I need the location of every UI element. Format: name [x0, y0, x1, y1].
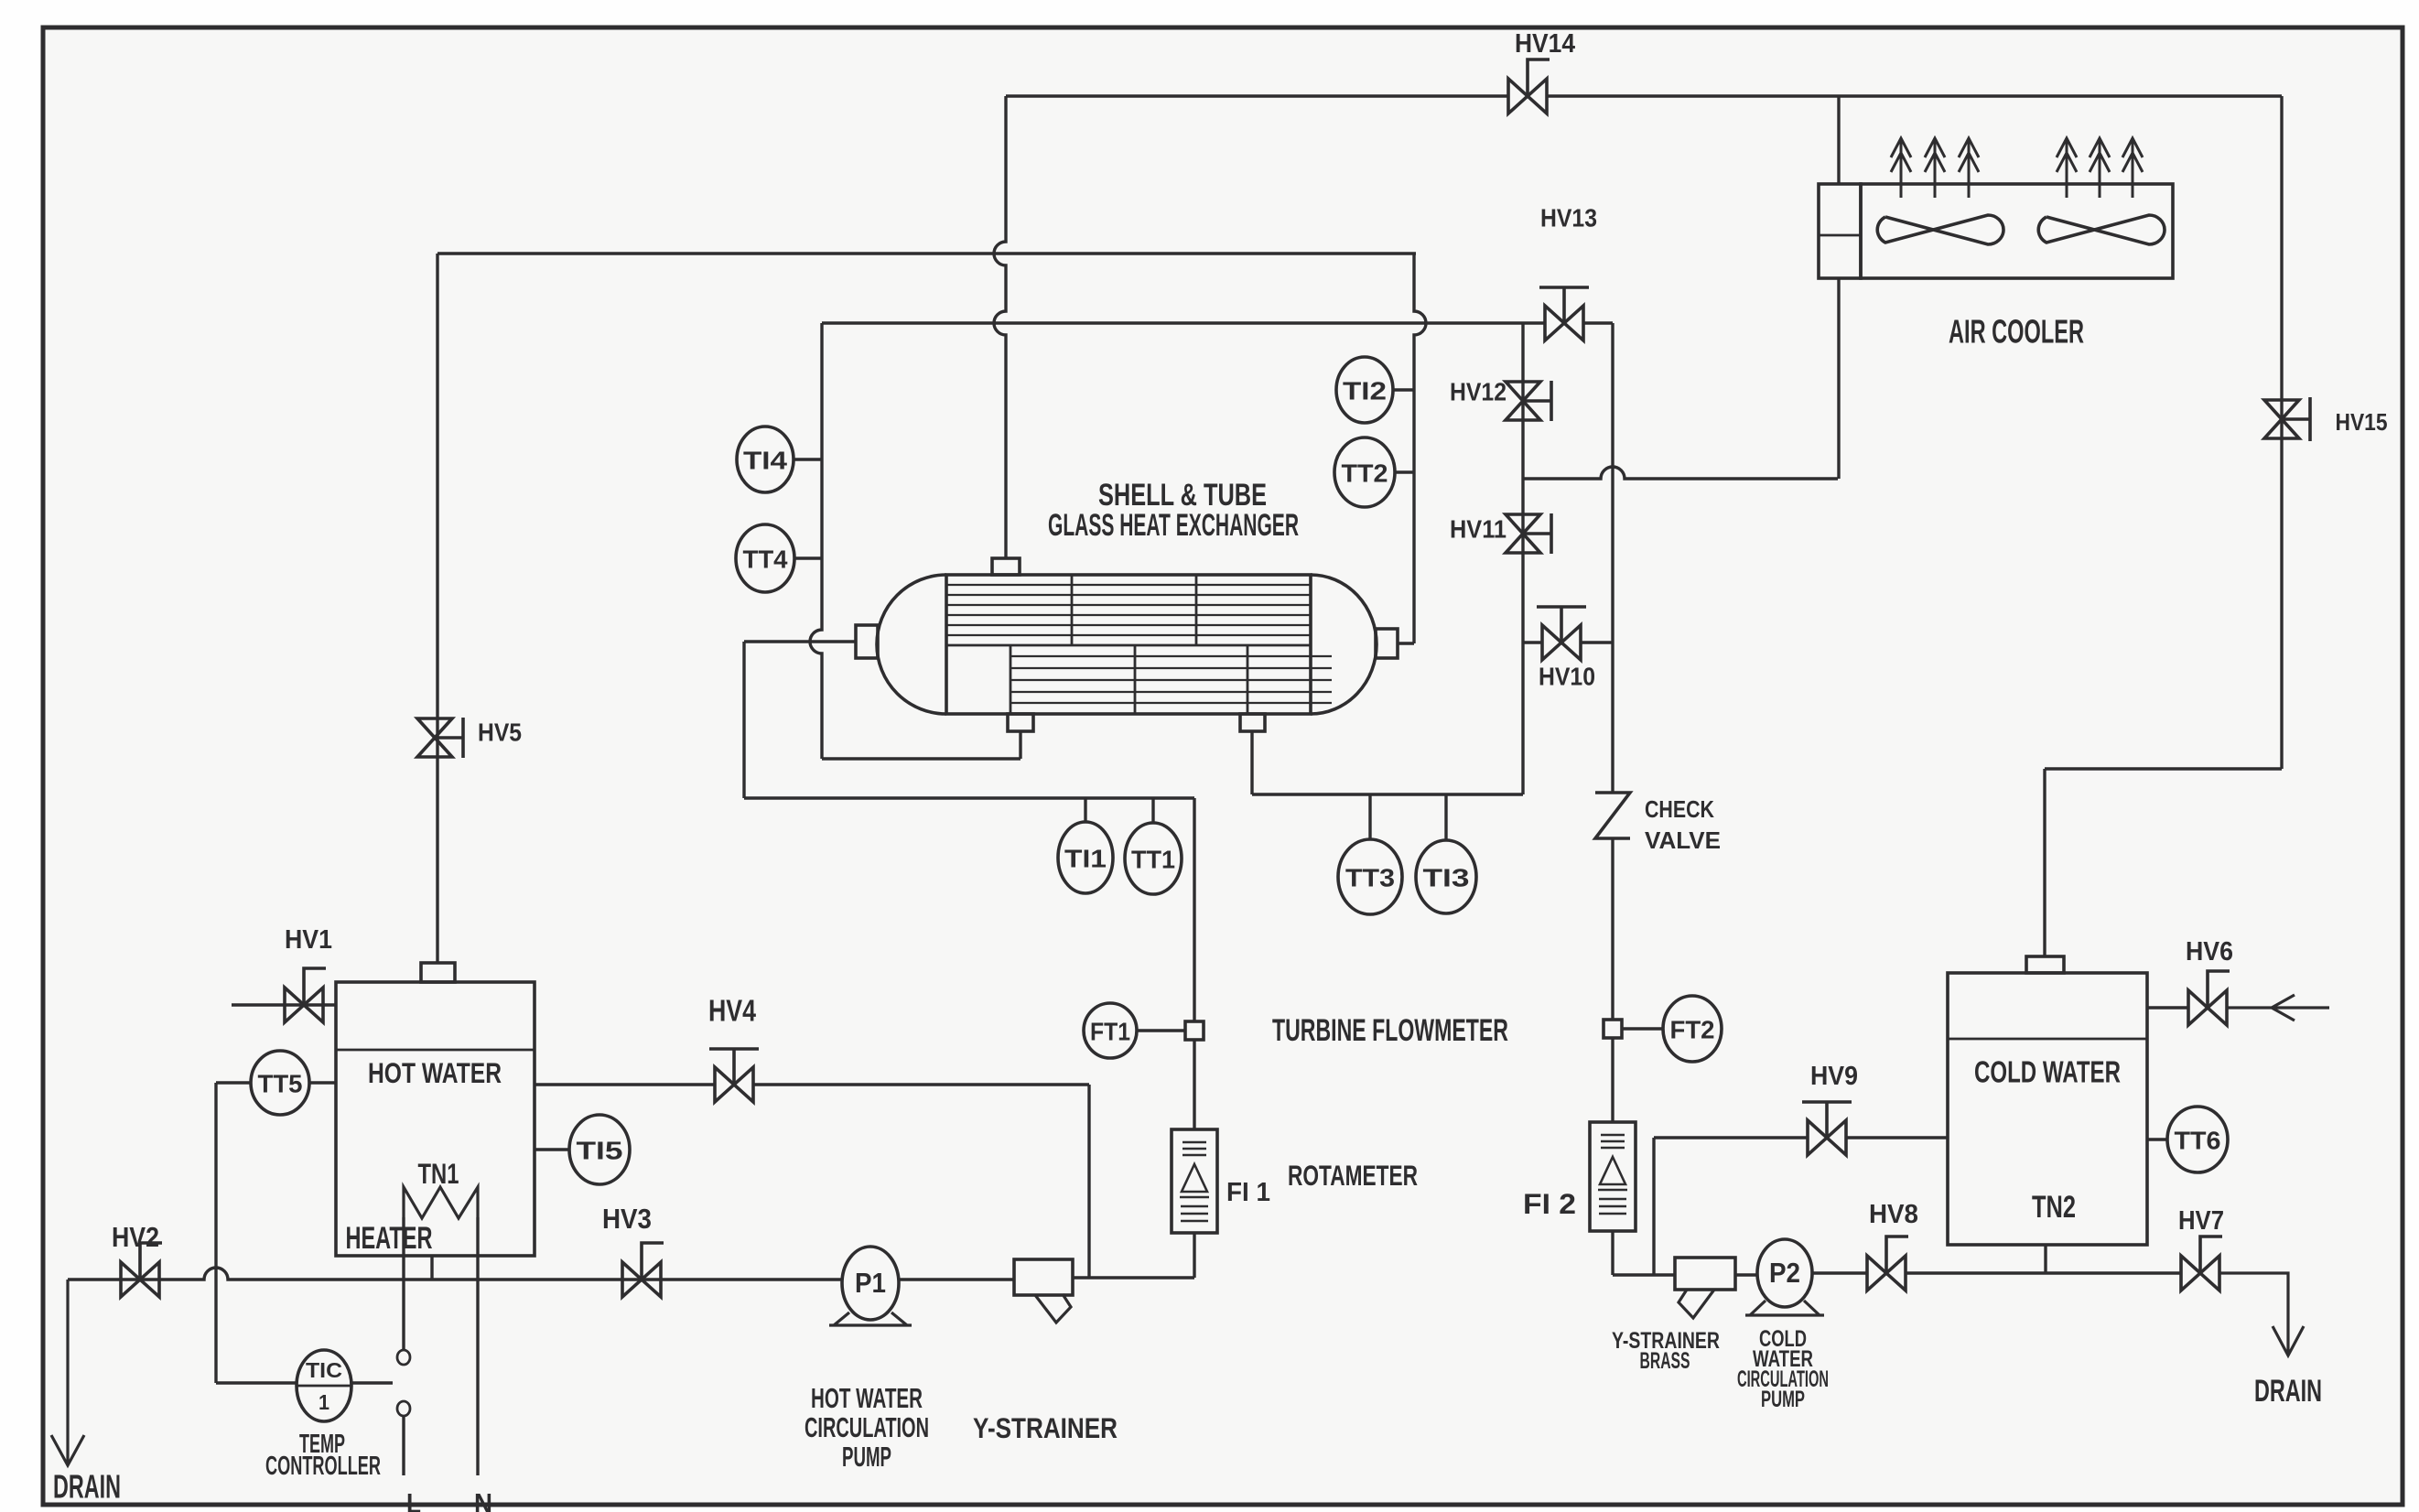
- wire exchanger shell inlet riser (drops from top header to shell top nozzle): [994, 96, 1006, 558]
- wire HV9 branch riser: [1652, 1138, 1655, 1275]
- valve HV1: [285, 988, 323, 1022]
- svg-text:DRAIN: DRAIN: [2254, 1374, 2322, 1409]
- valve HV11: [1506, 514, 1540, 553]
- svg-text:HV1: HV1: [285, 925, 332, 955]
- svg-text:P1: P1: [855, 1268, 886, 1299]
- svg-text:TT3: TT3: [1345, 864, 1395, 892]
- cold tank water level line: [1948, 1038, 2147, 1041]
- wire cold-side outlet run y=868 with TT3/TI3 taps: [1252, 793, 1523, 795]
- wire TI4 tap stub: [794, 458, 822, 460]
- svg-text:TT2: TT2: [1342, 459, 1388, 488]
- svg-text:GLASS HEAT EXCHANGER: GLASS HEAT EXCHANGER: [1048, 508, 1299, 543]
- wire right downcomer x=2493 from top header through HV15: [2280, 96, 2283, 769]
- pump P2 cold water circulation pump: [1757, 1239, 1812, 1307]
- valve HV8: [1867, 1256, 1906, 1291]
- valve HV14: [1508, 79, 1547, 113]
- svg-text:HOT WATER: HOT WATER: [811, 1383, 923, 1414]
- valve HV6: [2188, 990, 2227, 1025]
- svg-text:HEATER: HEATER: [346, 1221, 433, 1256]
- valve HV13: [1545, 306, 1583, 340]
- svg-text:N: N: [474, 1488, 492, 1512]
- heat exchanger lower baffles: [1010, 645, 1247, 714]
- instrument TT6: [2167, 1107, 2228, 1172]
- pump P2 base: [1745, 1301, 1824, 1315]
- heat exchanger shell body: [946, 575, 1311, 714]
- wire TT5 line from tank to controller drop: [216, 1081, 336, 1084]
- valve HV2: [121, 1262, 159, 1297]
- instrument TI1: [1058, 822, 1113, 893]
- wire FI1 bottom elbow to strainer line: [1193, 1233, 1195, 1278]
- svg-text:TT5: TT5: [258, 1070, 303, 1098]
- svg-text:PUMP: PUMP: [842, 1442, 891, 1473]
- svg-text:FT2: FT2: [1670, 1016, 1715, 1044]
- svg-text:PUMP: PUMP: [1761, 1387, 1805, 1412]
- instrument FT2: [1663, 996, 1722, 1062]
- tank TN1 hot water vessel: [336, 982, 535, 1256]
- svg-text:TN1: TN1: [418, 1157, 459, 1190]
- wire HV9 line to cold tank: [1654, 1136, 1808, 1139]
- wire cold tank top riser: [2043, 769, 2046, 956]
- wire HV7 to right drain with arrow: [2219, 1273, 2304, 1355]
- svg-text:TI4: TI4: [743, 447, 788, 475]
- instrument TT5: [251, 1051, 309, 1115]
- cold tank top nozzle: [2026, 956, 2064, 973]
- svg-text:HV6: HV6: [2186, 937, 2233, 967]
- svg-text:HV11: HV11: [1450, 515, 1506, 544]
- svg-text:HV3: HV3: [602, 1204, 652, 1235]
- air cooler main casing: [1861, 184, 2173, 278]
- wire bottom elbow to exchanger bottom-left nozzle: [822, 757, 1021, 760]
- wire left riser of tube-side loop x=898: [810, 323, 822, 759]
- hot tank water level line: [336, 1049, 535, 1052]
- valve HV15: [2264, 400, 2299, 438]
- svg-text:TT6: TT6: [2175, 1127, 2221, 1155]
- valve HV4: [715, 1067, 753, 1102]
- svg-text:DRAIN: DRAIN: [53, 1468, 121, 1506]
- wire HV4 downcomer: [1087, 1085, 1090, 1278]
- wire cold riser below check valve to FT2: [1611, 838, 1614, 1021]
- wire cold riser x=1762 from HV13 corner down to rotameter elbow: [1611, 323, 1614, 793]
- heat exchanger right end nozzle flange: [1376, 629, 1398, 658]
- wire rotameter FI1 downcomer from bottom hot run: [1193, 798, 1195, 1021]
- wire FT1 square to rotameter: [1193, 1040, 1195, 1129]
- svg-text:CONTROLLER: CONTROLLER: [265, 1452, 381, 1481]
- wire TI1 tap stub: [1084, 798, 1086, 823]
- wire tube-side return line y=353 from left riser to HV13: [822, 321, 1545, 324]
- air cooler outlet drop to return line: [1837, 278, 1840, 479]
- FT1 turbine sensor square: [1185, 1021, 1204, 1040]
- wire P2 to HV8: [1812, 1271, 1867, 1274]
- instrument TT4: [736, 524, 794, 592]
- wire TT3 tap stub: [1368, 794, 1371, 840]
- hot tank top nozzle: [421, 963, 455, 982]
- svg-text:TI5: TI5: [577, 1137, 623, 1165]
- wire TI5 stub: [535, 1148, 569, 1150]
- svg-text:HV9: HV9: [1810, 1062, 1858, 1091]
- air cooler fan 2: [2038, 215, 2165, 244]
- FT2 turbine sensor square: [1604, 1020, 1622, 1038]
- rotameter FI1: [1172, 1129, 1217, 1233]
- svg-text:VALVE: VALVE: [1645, 826, 1721, 854]
- instrument TI5: [569, 1115, 630, 1184]
- svg-text:FT1: FT1: [1090, 1018, 1130, 1046]
- svg-text:FI 2: FI 2: [1523, 1187, 1576, 1220]
- valve HV7: [2181, 1256, 2219, 1291]
- heat exchanger top nozzle flange: [992, 558, 1020, 575]
- svg-text:P2: P2: [1769, 1258, 1800, 1289]
- valve HV3: [622, 1262, 661, 1297]
- wire top header from exchanger riser to HV14: [1006, 94, 1508, 97]
- wire feed line right of HV6: [2227, 995, 2329, 1021]
- heat exchanger left end nozzle flange: [856, 625, 878, 658]
- instrument TIC 1 temp controller: [297, 1350, 351, 1421]
- strainer Y-strainer hot side: [1014, 1259, 1073, 1295]
- wire left drain drop with arrow: [51, 1280, 84, 1465]
- instrument TI2: [1336, 357, 1393, 423]
- wire drop from dome elbow to bottom hot run: [742, 642, 745, 798]
- wire air-cooler return line y=523 from bypass tee to air cooler downcomer: [1523, 467, 1838, 479]
- wire cold tank bottom stub: [2044, 1245, 2046, 1273]
- wire HV8 to HV7 under cold tank: [1906, 1271, 2181, 1274]
- wire top header from HV14 to air-cooler tee and right corner: [1547, 94, 2282, 97]
- check valve on cold riser: [1595, 793, 1630, 838]
- pump P1 hot water circulation pump: [842, 1247, 899, 1320]
- heat exchanger tube bundle upper tubes: [946, 585, 1311, 635]
- instrument TT3: [1338, 839, 1402, 914]
- wire exchanger right downcomer x=1545 to right end nozzle: [1414, 254, 1426, 643]
- wire FI2 bottom elbow: [1611, 1231, 1614, 1275]
- valve HV9: [1808, 1120, 1846, 1155]
- svg-text:ROTAMETER: ROTAMETER: [1288, 1159, 1418, 1192]
- svg-text:TIC: TIC: [306, 1358, 342, 1382]
- svg-text:AIR COOLER: AIR COOLER: [1949, 313, 2084, 351]
- svg-text:Y-STRAINER: Y-STRAINER: [973, 1411, 1118, 1444]
- svg-text:HV15: HV15: [2336, 408, 2388, 436]
- instrument FT1: [1084, 1003, 1137, 1058]
- wire tube-side inlet from left dome nozzle: [744, 640, 856, 643]
- contact circle lower: [397, 1401, 410, 1416]
- svg-text:HV13: HV13: [1540, 204, 1597, 232]
- air cooler fan 1: [1877, 215, 2003, 244]
- svg-text:HV7: HV7: [2178, 1206, 2224, 1236]
- wire TT4 tap stub: [794, 556, 822, 559]
- svg-text:HV10: HV10: [1539, 663, 1595, 691]
- strainer Y-strainer brass cold side: [1675, 1258, 1735, 1290]
- wire cold riser FT2 to rotameter FI2: [1611, 1038, 1614, 1122]
- wire bypass drop x=1664 from return line through HV12, HV11 to cold outlet run: [1521, 323, 1524, 794]
- svg-text:TT1: TT1: [1131, 846, 1175, 874]
- wire from HV13 to right downcomer corner: [1583, 321, 1613, 324]
- instrument TI3: [1416, 840, 1476, 913]
- wire HV6 feed line with inlet arrow: [2147, 1006, 2188, 1009]
- pump P1 base: [829, 1312, 912, 1325]
- svg-text:L: L: [406, 1488, 421, 1512]
- wire exchanger bottom-right nozzle drop: [1250, 731, 1253, 794]
- heater L conductor lower: [402, 1416, 405, 1475]
- air cooler feed drop from top header: [1837, 96, 1840, 184]
- svg-text:HV14: HV14: [1515, 29, 1575, 59]
- heat exchanger left dome: [877, 575, 946, 714]
- wire FT1 stub: [1137, 1029, 1185, 1031]
- svg-text:TURBINE FLOWMETER: TURBINE FLOWMETER: [1272, 1013, 1508, 1048]
- wire controller drop from TT5 line: [214, 1083, 217, 1383]
- heat exchanger upper baffles: [1072, 575, 1196, 645]
- svg-text:HV8: HV8: [1869, 1200, 1918, 1229]
- tank TN2 cold water vessel: [1948, 973, 2147, 1245]
- wire strainer to pump P2: [1735, 1273, 1757, 1276]
- svg-text:TT4: TT4: [743, 545, 789, 574]
- wire TT6 stub: [2147, 1138, 2167, 1140]
- wire hot outlet y=1185 from tank to HV4 and down to strainer outlet: [535, 1083, 714, 1085]
- rotameter FI2: [1590, 1122, 1636, 1231]
- wire controller line to heater contacts: [216, 1381, 393, 1384]
- svg-text:TI3: TI3: [1423, 864, 1470, 892]
- heat exchanger mid partition line: [946, 644, 1311, 647]
- valve HV10 crossover: [1523, 641, 1542, 643]
- svg-text:TN2: TN2: [2032, 1190, 2076, 1225]
- instrument TT1: [1125, 823, 1182, 894]
- wire run y=840 to cold tank riser: [2045, 767, 2282, 770]
- air cooler exhaust arrows group 2: [2057, 138, 2143, 198]
- instrument TI4: [737, 427, 794, 492]
- wire HV1 inlet stub: [232, 1003, 336, 1006]
- svg-text:HV5: HV5: [478, 718, 522, 747]
- wire FT2 stub: [1622, 1027, 1663, 1030]
- wire TI2 tap stub: [1392, 388, 1414, 391]
- wire TT2 tap stub: [1393, 470, 1414, 473]
- svg-text:HOT WATER: HOT WATER: [368, 1056, 502, 1089]
- svg-text:TI1: TI1: [1064, 845, 1107, 873]
- svg-text:TI2: TI2: [1343, 377, 1387, 405]
- air cooler exhaust arrows group 1: [1891, 138, 1979, 198]
- heat exchanger bottom-right nozzle flange: [1240, 714, 1265, 731]
- svg-text:1: 1: [319, 1390, 329, 1414]
- svg-text:HV12: HV12: [1450, 378, 1506, 406]
- svg-text:HV2: HV2: [112, 1222, 159, 1253]
- valve HV12: [1506, 382, 1540, 420]
- heat exchanger bottom-left nozzle flange: [1008, 714, 1033, 731]
- svg-text:COLD WATER: COLD WATER: [1974, 1056, 2121, 1090]
- heat exchanger tube bundle lower tubes: [1010, 656, 1332, 703]
- wire bottom hot run y=872 with TI1/TT1 taps to FT1 downcomer: [744, 796, 1194, 799]
- wire TT1 tap stub: [1151, 798, 1154, 824]
- heater L conductor upper: [402, 1217, 405, 1351]
- wire strainer outlet to rotameter foot: [1073, 1276, 1194, 1279]
- wire hot suction run y=1398 from drain corner to strainer: [68, 1268, 1014, 1280]
- svg-text:CIRCULATION: CIRCULATION: [805, 1412, 929, 1443]
- instrument TT2: [1334, 437, 1395, 507]
- svg-text:FI 1: FI 1: [1226, 1178, 1270, 1207]
- valve HV5: [417, 718, 452, 757]
- wire hot supply header at y=277 from tank riser to exchanger right downcomer: [437, 252, 1416, 254]
- heater N conductor: [476, 1217, 479, 1475]
- svg-text:BRASS: BRASS: [1640, 1348, 1690, 1374]
- wire hot tank bottom stub: [430, 1256, 433, 1280]
- heater TN1 element zigzag: [404, 1187, 478, 1218]
- contact circle upper: [397, 1350, 410, 1365]
- wire TI3 tap stub: [1444, 794, 1447, 841]
- svg-text:HV4: HV4: [708, 995, 756, 1029]
- heat exchanger right dome: [1311, 575, 1377, 714]
- svg-text:CHECK: CHECK: [1645, 795, 1714, 823]
- wire hot-side riser from tank top through HV5: [436, 254, 438, 963]
- air cooler left header box: [1819, 184, 1861, 278]
- air cooler header divider: [1819, 234, 1861, 237]
